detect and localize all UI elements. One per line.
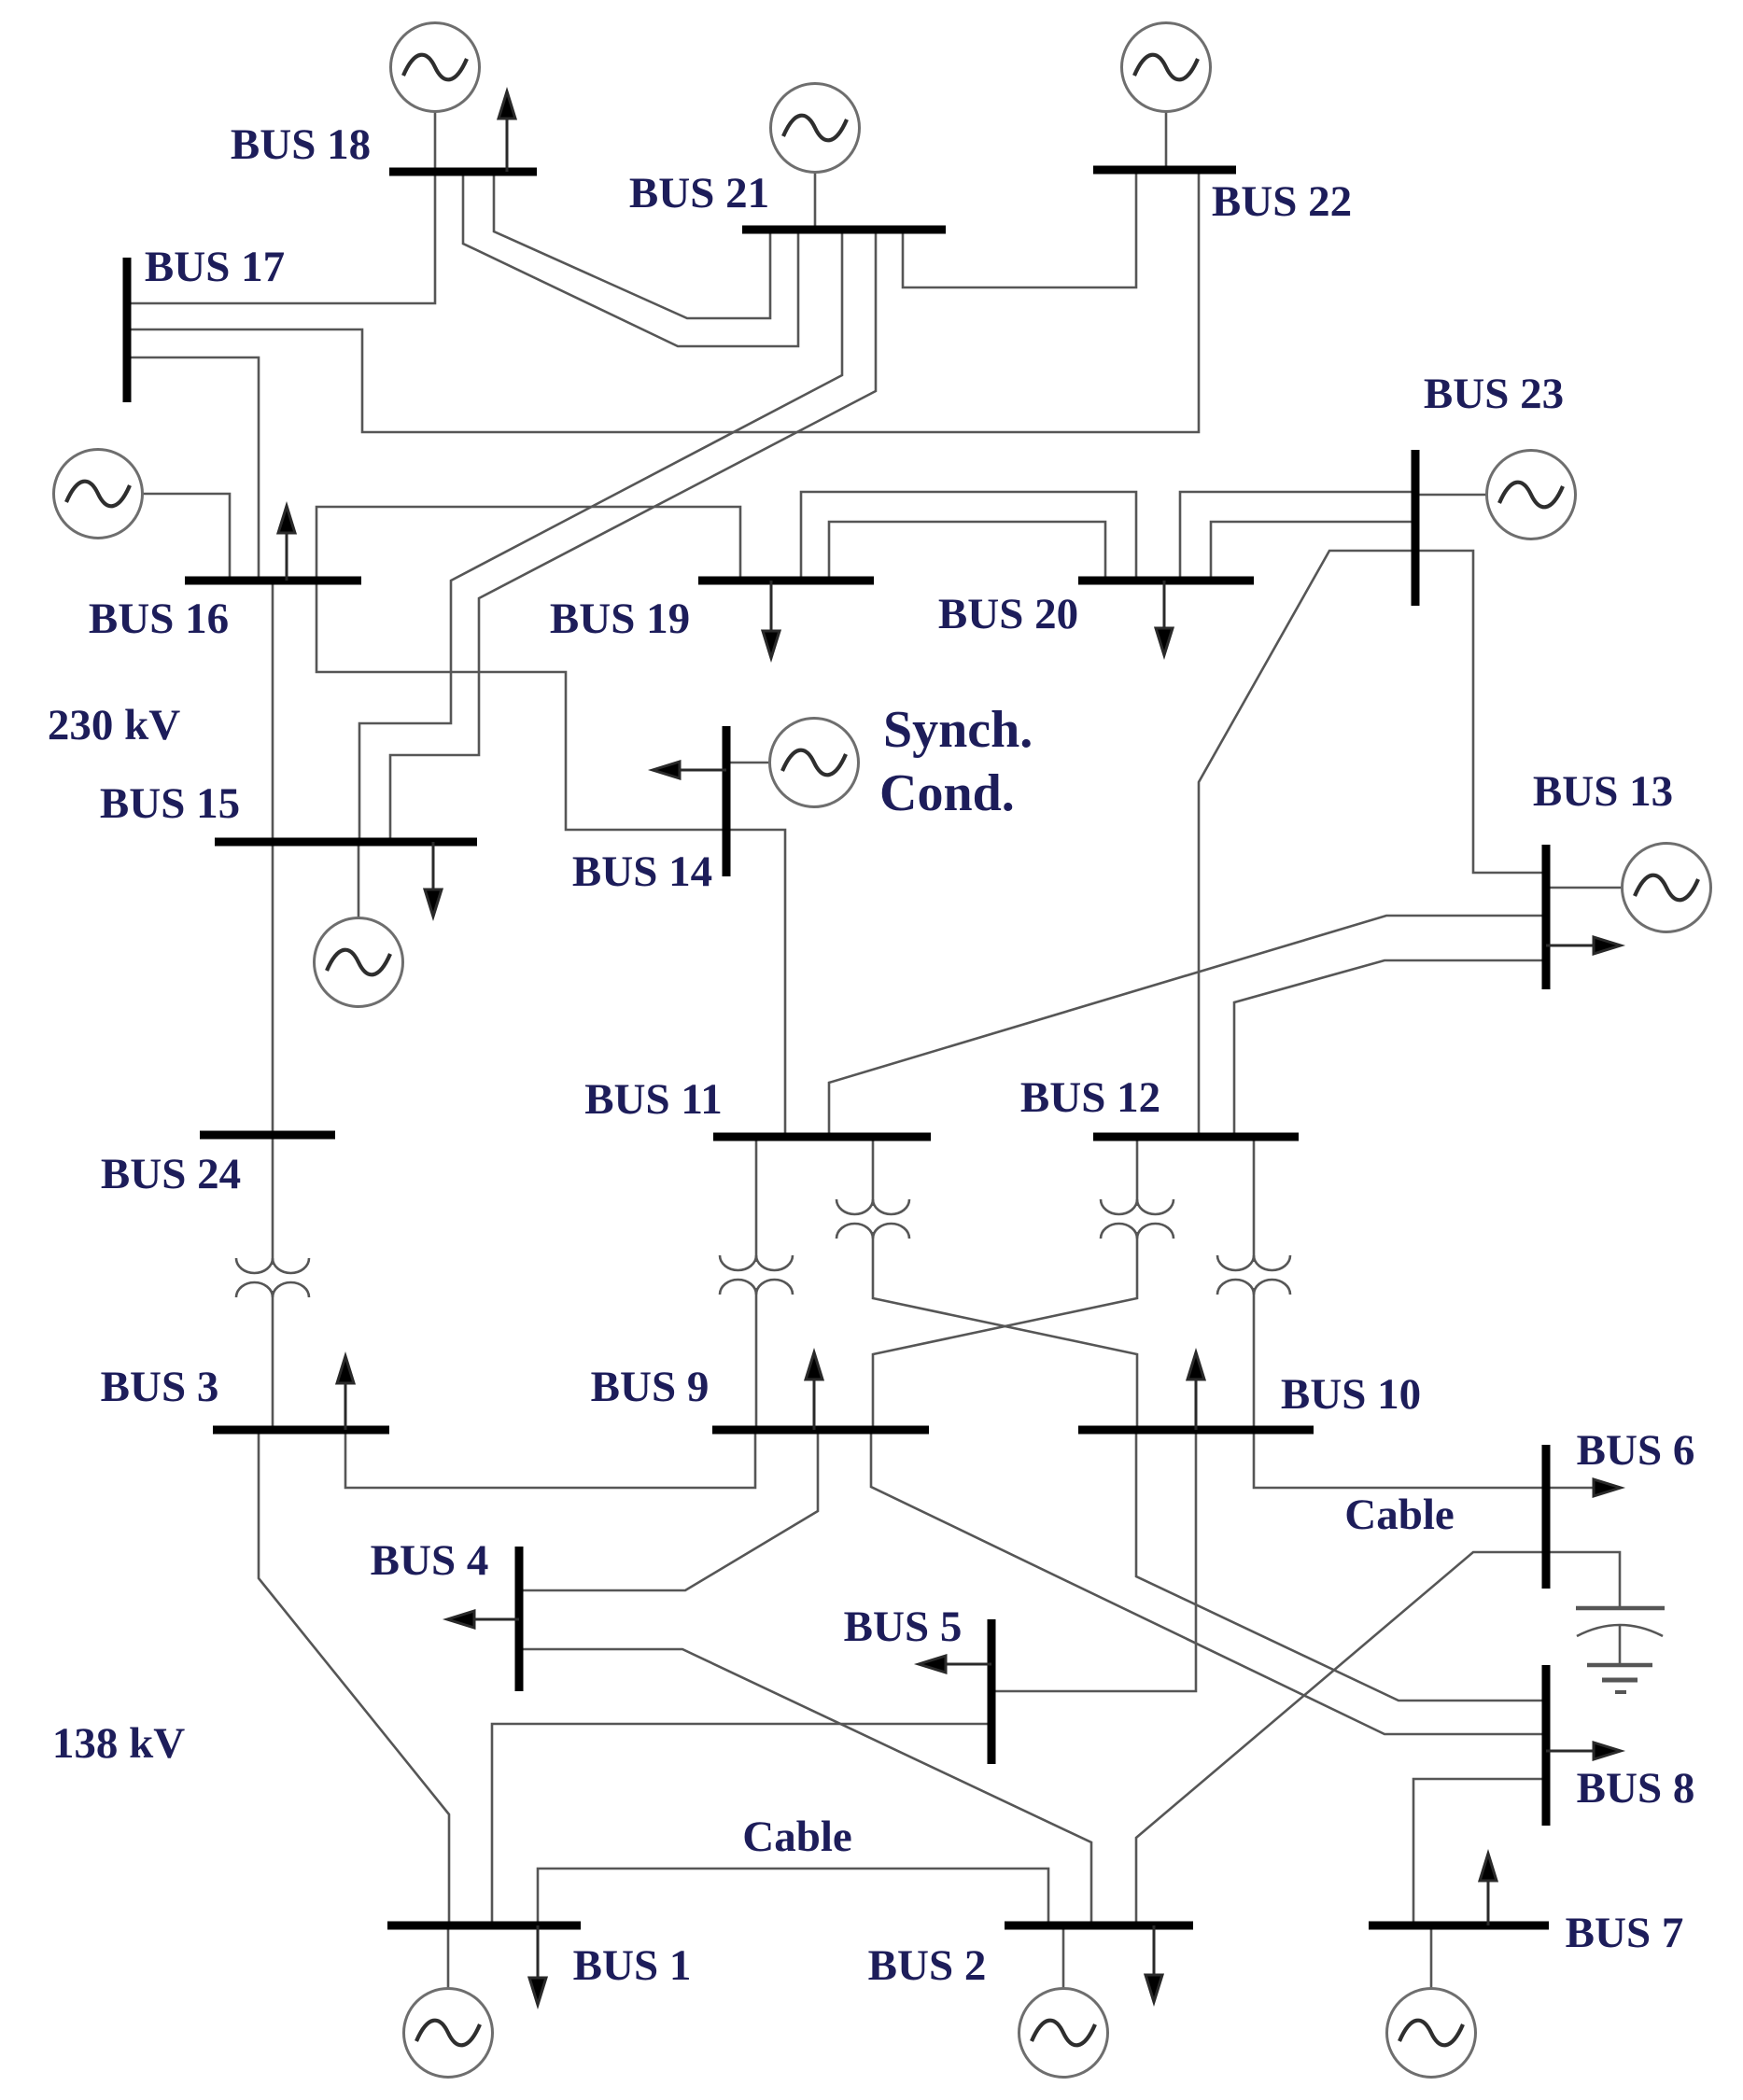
- svg-text:BUS 1: BUS 1: [573, 1941, 692, 1990]
- svg-text:BUS 23: BUS 23: [1424, 370, 1564, 418]
- svg-text:BUS 21: BUS 21: [629, 169, 769, 217]
- svg-text:BUS 3: BUS 3: [101, 1363, 219, 1411]
- svg-text:BUS 13: BUS 13: [1533, 767, 1673, 816]
- svg-text:BUS 2: BUS 2: [868, 1941, 987, 1990]
- svg-text:BUS 24: BUS 24: [101, 1150, 241, 1198]
- svg-text:BUS 16: BUS 16: [89, 595, 229, 643]
- svg-text:BUS 7: BUS 7: [1566, 1909, 1684, 1957]
- svg-text:BUS 22: BUS 22: [1212, 177, 1352, 226]
- svg-text:BUS 9: BUS 9: [591, 1363, 710, 1411]
- svg-text:Cable: Cable: [1344, 1491, 1455, 1539]
- svg-text:BUS 12: BUS 12: [1020, 1073, 1160, 1122]
- svg-text:BUS 4: BUS 4: [371, 1536, 489, 1585]
- svg-text:138 kV: 138 kV: [52, 1719, 185, 1768]
- svg-text:230 kV: 230 kV: [48, 701, 180, 749]
- svg-text:BUS 19: BUS 19: [550, 595, 690, 643]
- svg-text:BUS 10: BUS 10: [1281, 1370, 1421, 1419]
- svg-text:BUS 5: BUS 5: [844, 1603, 963, 1651]
- svg-text:BUS 6: BUS 6: [1577, 1426, 1695, 1475]
- svg-text:BUS 11: BUS 11: [584, 1075, 723, 1124]
- svg-text:BUS 18: BUS 18: [231, 120, 371, 169]
- svg-text:BUS 8: BUS 8: [1577, 1764, 1695, 1813]
- svg-text:BUS 20: BUS 20: [938, 590, 1078, 638]
- svg-text:BUS 15: BUS 15: [100, 779, 240, 828]
- svg-text:Cond.: Cond.: [879, 764, 1015, 822]
- svg-text:Cable: Cable: [742, 1813, 852, 1861]
- svg-text:Synch.: Synch.: [883, 701, 1033, 759]
- svg-text:BUS 14: BUS 14: [572, 847, 712, 896]
- svg-text:BUS 17: BUS 17: [145, 243, 285, 291]
